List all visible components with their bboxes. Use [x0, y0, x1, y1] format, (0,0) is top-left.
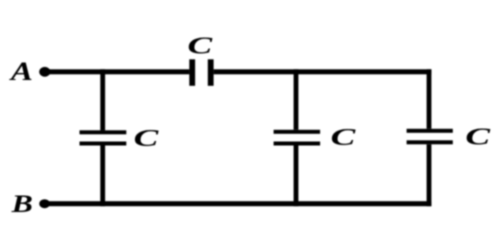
svg-text:A: A	[9, 58, 33, 86]
wire middle vertical upper lead (top wire to C3 top plate)	[294, 69, 299, 130]
capacitor C1 (top, series) left plate	[189, 59, 195, 86]
capacitor C3 (middle shunt) top plate	[274, 130, 321, 134]
capacitor C3 (middle shunt) bottom plate	[274, 142, 321, 146]
wire right vertical upper lead (top corner to C4 top plate)	[427, 69, 432, 129]
wire top horizontal right segment (top capacitor to right corner)	[214, 69, 432, 74]
capacitor C1 (top, series) right plate	[208, 59, 214, 86]
wire bottom horizontal (B to right corner)	[44, 201, 431, 206]
node B terminal dot	[39, 199, 50, 208]
svg-text:C: C	[134, 124, 160, 151]
wire top horizontal left segment (A to top capacitor)	[44, 69, 189, 74]
svg-text:B: B	[10, 190, 32, 218]
svg-text:C: C	[331, 124, 357, 151]
wire middle vertical lower lead (C3 bottom plate to bottom wire)	[294, 145, 299, 206]
wire left vertical upper lead (top wire to C2 top plate)	[100, 69, 105, 130]
wire left vertical lower lead (C2 bottom plate to bottom wire)	[100, 145, 105, 206]
capacitor C4 (right shunt) top plate	[407, 129, 453, 133]
wire right vertical lower lead (C4 bottom plate to bottom corner)	[427, 144, 432, 206]
node A terminal dot	[39, 67, 50, 77]
capacitor C4 (right shunt) bottom plate	[407, 140, 453, 144]
capacitor C2 (left shunt) top plate	[80, 130, 127, 134]
svg-text:C: C	[465, 123, 491, 150]
capacitor C2 (left shunt) bottom plate	[80, 142, 127, 146]
svg-text:C: C	[188, 32, 214, 59]
